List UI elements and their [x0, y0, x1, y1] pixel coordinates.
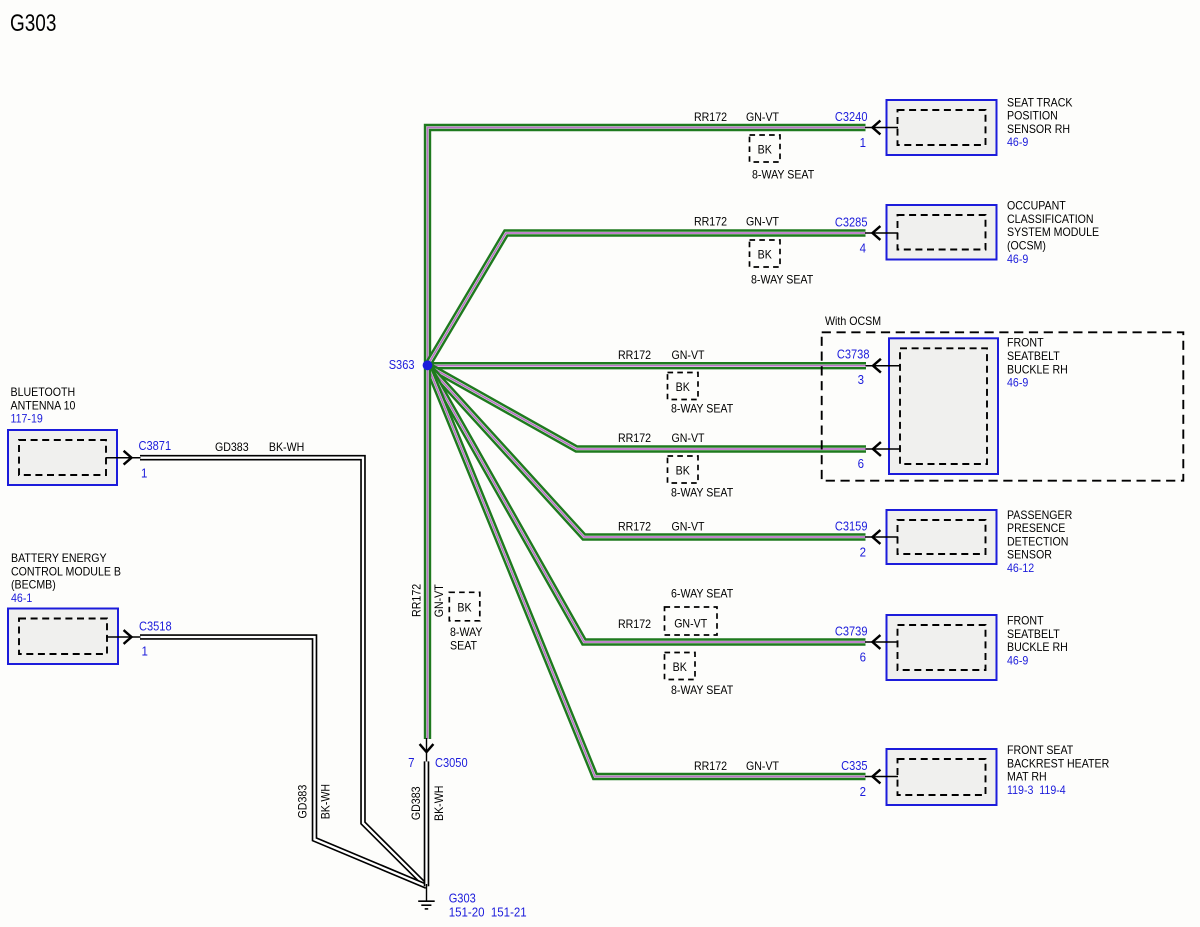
- svg-text:BUCKLE RH: BUCKLE RH: [1007, 362, 1068, 376]
- svg-text:G303: G303: [10, 10, 56, 37]
- wire RR172 GN-VT S363 to C335 pin 2: [428, 365, 866, 776]
- svg-text:C3240: C3240: [835, 110, 868, 124]
- label wire6 BK 8-WAY SEAT: [665, 653, 734, 698]
- svg-text:BUCKLE RH: BUCKLE RH: [1007, 640, 1068, 654]
- svg-text:G303: G303: [449, 892, 476, 906]
- svg-text:46-1: 46-1: [11, 591, 33, 605]
- svg-text:2: 2: [860, 784, 866, 799]
- svg-text:DETECTION: DETECTION: [1007, 534, 1068, 548]
- svg-text:SEAT: SEAT: [450, 638, 478, 652]
- wire RR172 GN-VT S363 to C3159 pin 2: [428, 365, 866, 537]
- svg-text:ANTENNA 10: ANTENNA 10: [11, 398, 76, 412]
- svg-text:8-WAY: 8-WAY: [450, 625, 483, 639]
- svg-text:6-WAY SEAT: 6-WAY SEAT: [671, 587, 734, 601]
- connector C3871 BLUETOOTH ANTENNA 10: [8, 385, 171, 485]
- svg-text:SEATBELT: SEATBELT: [1007, 627, 1060, 641]
- svg-text:46-9: 46-9: [1007, 376, 1029, 390]
- label wire3 BK 8-WAY SEAT: [668, 373, 734, 416]
- svg-text:SEAT TRACK: SEAT TRACK: [1007, 95, 1073, 109]
- svg-text:BK: BK: [758, 248, 772, 262]
- svg-text:RR172: RR172: [618, 520, 651, 534]
- connector C3159 PASSENGER PRESENCE DETECTION SENSOR: [835, 508, 1073, 575]
- label wire6 6-WAY SEAT GN-VT option: [618, 587, 734, 636]
- label wire4 BK 8-WAY SEAT: [668, 456, 734, 500]
- svg-text:POSITION: POSITION: [1007, 109, 1058, 123]
- svg-text:(OCSM): (OCSM): [1007, 239, 1046, 253]
- label green vertical BK 8-WAY SEAT: [449, 592, 482, 652]
- svg-text:BK-WH: BK-WH: [269, 440, 304, 454]
- svg-text:MAT RH: MAT RH: [1007, 770, 1047, 784]
- svg-text:GN-VT: GN-VT: [672, 431, 706, 445]
- svg-text:C3518: C3518: [139, 620, 172, 634]
- node G303 label: [449, 892, 527, 920]
- svg-text:BK: BK: [676, 464, 690, 478]
- svg-text:BK: BK: [457, 601, 471, 615]
- svg-text:RR172: RR172: [694, 759, 727, 773]
- svg-text:7: 7: [408, 755, 414, 770]
- label wire5 RR172 GN-VT: [618, 520, 705, 534]
- svg-text:FRONT SEAT: FRONT SEAT: [1007, 743, 1074, 757]
- svg-text:BK-WH: BK-WH: [319, 784, 333, 819]
- label C3871 wire GD383 BK-WH: [215, 440, 304, 454]
- label C3518 wire vertical GD383 BK-WH: [295, 784, 332, 819]
- svg-text:SENSOR RH: SENSOR RH: [1007, 122, 1070, 136]
- label wire2 BK 8-WAY SEAT: [750, 240, 814, 287]
- svg-text:8-WAY SEAT: 8-WAY SEAT: [671, 486, 734, 500]
- svg-text:1: 1: [141, 466, 147, 481]
- connector C3050 pin 7: [408, 738, 468, 770]
- svg-text:RR172: RR172: [694, 110, 727, 124]
- svg-text:SENSOR: SENSOR: [1007, 548, 1052, 562]
- wire GD383 BK-WH C3050 pin 7 to G303: [424, 761, 430, 886]
- wire GD383 BK-WH C3871 to G303: [140, 458, 427, 887]
- svg-text:GD383: GD383: [295, 784, 309, 818]
- svg-text:8-WAY SEAT: 8-WAY SEAT: [671, 402, 734, 416]
- label wire4 RR172 GN-VT: [618, 431, 705, 445]
- wire RR172 GN-VT S363 down to C3050 pin 7: [424, 365, 431, 739]
- wire RR172 GN-VT S363 to C3240 pin 1: [428, 128, 866, 366]
- svg-text:8-WAY SEAT: 8-WAY SEAT: [751, 273, 814, 287]
- svg-text:C3050: C3050: [435, 756, 468, 770]
- label C3050 wire vertical GD383 BK-WH: [409, 786, 446, 821]
- svg-text:C335: C335: [841, 759, 867, 773]
- svg-text:C3285: C3285: [835, 215, 868, 229]
- connector C3739 FRONT SEATBELT BUCKLE RH: [835, 614, 1068, 681]
- svg-text:BK: BK: [673, 660, 687, 674]
- svg-text:(BECMB): (BECMB): [11, 578, 56, 592]
- ground G303: [418, 884, 435, 909]
- svg-text:CLASSIFICATION: CLASSIFICATION: [1007, 212, 1094, 226]
- svg-text:GD383: GD383: [215, 440, 249, 454]
- svg-text:With OCSM: With OCSM: [825, 314, 881, 328]
- label wire3 RR172 GN-VT: [618, 348, 705, 362]
- svg-text:RR172: RR172: [618, 348, 651, 362]
- svg-text:151-20 151-21: 151-20 151-21: [449, 905, 527, 920]
- svg-text:1: 1: [860, 135, 866, 150]
- svg-text:C3738: C3738: [837, 347, 870, 361]
- svg-text:46-12: 46-12: [1007, 561, 1034, 575]
- svg-text:117-19: 117-19: [11, 412, 44, 426]
- svg-text:SEATBELT: SEATBELT: [1007, 349, 1060, 363]
- label wire1 BK 8-WAY SEAT: [750, 135, 815, 182]
- svg-text:GN-VT: GN-VT: [672, 520, 706, 534]
- splice S363: [389, 358, 433, 372]
- svg-text:8-WAY SEAT: 8-WAY SEAT: [752, 168, 815, 182]
- svg-text:119-3 119-4: 119-3 119-4: [1007, 783, 1066, 797]
- svg-text:46-9: 46-9: [1007, 135, 1029, 149]
- connector C3240 SEAT TRACK POSITION SENSOR RH: [835, 95, 1073, 155]
- label green vertical RR172 GN-VT: [409, 584, 446, 618]
- svg-text:4: 4: [860, 241, 866, 256]
- connector C3738 FRONT SEATBELT BUCKLE RH: [837, 336, 1068, 474]
- svg-text:PRESENCE: PRESENCE: [1007, 521, 1065, 535]
- svg-text:BLUETOOTH: BLUETOOTH: [11, 385, 76, 399]
- label wire7 RR172 GN-VT: [694, 759, 780, 773]
- wire RR172 GN-VT S363 to C3285 pin 4: [428, 233, 866, 365]
- svg-text:BK: BK: [676, 380, 690, 394]
- title G303: [10, 10, 56, 37]
- svg-text:6: 6: [860, 650, 866, 665]
- connector C3285 OCCUPANT CLASSIFICATION SYSTEM MODULE: [835, 199, 1099, 266]
- svg-text:CONTROL MODULE B: CONTROL MODULE B: [11, 564, 121, 578]
- svg-text:46-9: 46-9: [1007, 252, 1029, 266]
- wire RR172 GN-VT S363 to C3738 pin 6: [428, 365, 867, 449]
- svg-text:BACKREST HEATER: BACKREST HEATER: [1007, 756, 1110, 770]
- svg-text:46-9: 46-9: [1007, 653, 1029, 667]
- svg-text:FRONT: FRONT: [1007, 336, 1044, 350]
- svg-text:GN-VT: GN-VT: [432, 584, 446, 618]
- svg-text:C3739: C3739: [835, 624, 868, 638]
- svg-text:GN-VT: GN-VT: [746, 215, 780, 229]
- svg-text:BK-WH: BK-WH: [432, 786, 446, 821]
- svg-text:BK: BK: [758, 143, 772, 157]
- svg-text:6: 6: [858, 456, 864, 471]
- svg-text:C3871: C3871: [139, 439, 172, 453]
- node With OCSM option box: [822, 314, 1184, 481]
- svg-text:8-WAY SEAT: 8-WAY SEAT: [671, 683, 734, 697]
- label wire2 RR172 GN-VT: [694, 215, 780, 229]
- svg-text:S363: S363: [389, 358, 415, 372]
- svg-text:1: 1: [142, 644, 148, 659]
- svg-text:PASSENGER: PASSENGER: [1007, 508, 1073, 522]
- connector C335 FRONT SEAT BACKREST HEATER MAT RH: [841, 743, 1109, 805]
- svg-text:GN-VT: GN-VT: [674, 617, 708, 631]
- svg-text:FRONT: FRONT: [1007, 614, 1044, 628]
- svg-text:BATTERY ENERGY: BATTERY ENERGY: [11, 551, 107, 565]
- label wire1 RR172 GN-VT: [694, 110, 780, 124]
- wire GD383 BK-WH C3518 to G303: [140, 637, 427, 886]
- svg-text:GN-VT: GN-VT: [672, 348, 706, 362]
- svg-text:GN-VT: GN-VT: [746, 110, 780, 124]
- wire RR172 GN-VT S363 to C3738 pin 3: [428, 362, 867, 369]
- svg-text:OCCUPANT: OCCUPANT: [1007, 199, 1066, 213]
- svg-text:RR172: RR172: [409, 584, 423, 617]
- svg-text:2: 2: [860, 545, 866, 560]
- svg-text:3: 3: [858, 372, 864, 387]
- svg-text:RR172: RR172: [618, 431, 651, 445]
- svg-text:SYSTEM MODULE: SYSTEM MODULE: [1007, 225, 1099, 239]
- svg-text:GD383: GD383: [409, 786, 423, 820]
- wire RR172 GN-VT S363 to C3739 pin 6: [428, 365, 866, 642]
- svg-text:RR172: RR172: [694, 215, 727, 229]
- connector C3518 BATTERY ENERGY CONTROL MODULE B: [8, 551, 172, 664]
- svg-text:C3159: C3159: [835, 519, 868, 533]
- svg-text:RR172: RR172: [618, 617, 651, 631]
- svg-text:GN-VT: GN-VT: [746, 759, 780, 773]
